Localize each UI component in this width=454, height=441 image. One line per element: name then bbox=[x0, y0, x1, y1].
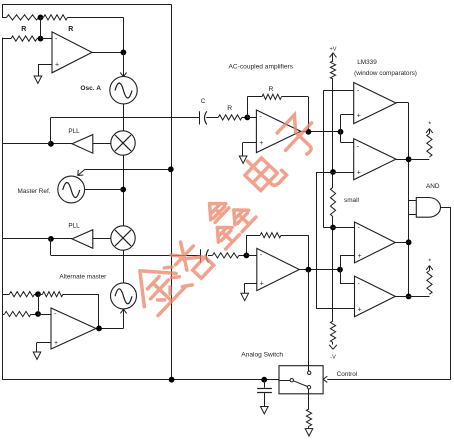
wire AC amp1 input line bbox=[51, 117, 199, 119]
wire signal to comp3 + bbox=[340, 255, 342, 269]
comparator U5C bbox=[355, 222, 396, 263]
resistor R13 (-V ladder) bbox=[330, 321, 335, 343]
wire left drop to R1 bbox=[2, 5, 4, 18]
svg-text:-: - bbox=[358, 225, 361, 232]
wire PLL2 node down to AC amp2 input line bbox=[50, 239, 52, 256]
wire U1 + to ground bbox=[38, 64, 52, 66]
resistor R16 (switch load) bbox=[306, 409, 311, 426]
wire PLL1 node up to AC amp1 input line bbox=[50, 117, 52, 143]
wire into U1 - bbox=[41, 38, 53, 40]
node comp3 output bbox=[406, 239, 412, 245]
wire comp1 - down to node B bbox=[323, 90, 353, 92]
wire PLL1 node to left rail bbox=[2, 143, 51, 145]
wire node A to comp2 + bbox=[316, 172, 353, 174]
wire PLL2 output bbox=[51, 238, 72, 240]
resistor R6 (U2 input) bbox=[2, 314, 5, 316]
wire master ref sync from right rail bbox=[85, 169, 171, 171]
wire Osc A to mixer X1 bbox=[123, 104, 125, 131]
ground U2 bbox=[33, 352, 41, 359]
resistor R11 (+V ladder) bbox=[330, 61, 335, 79]
node junction R1/R2 bbox=[38, 15, 44, 21]
resistor R2 (top feedback) bbox=[41, 17, 44, 19]
svg-text:R: R bbox=[68, 26, 73, 33]
wire output node to pull-up 1 bbox=[409, 159, 430, 161]
wire signal to comp1 + bbox=[340, 115, 342, 132]
node right rail / master ref bbox=[168, 166, 174, 172]
arrow to -V (switch load) bbox=[308, 426, 310, 428]
resistor R5 (U2 feedback b) bbox=[38, 294, 43, 296]
wire mixer X1 to PLL1 bbox=[93, 143, 111, 145]
wire U4 output bbox=[299, 269, 340, 271]
wire U2 + to ground bbox=[37, 342, 51, 344]
wire top feedback bus bbox=[2, 4, 172, 6]
resistor R1 (top left) bbox=[2, 17, 7, 19]
node U1 output bbox=[121, 50, 127, 56]
wire AC amp1 feedback up bbox=[247, 97, 249, 118]
resistor R14 (pull-up *) bbox=[427, 134, 432, 158]
node PLL2 output bbox=[48, 236, 54, 242]
node comparator outputs 1/2 bbox=[406, 156, 412, 162]
wire ladder lower bbox=[332, 217, 334, 321]
supply * arrow 2 bbox=[426, 266, 429, 270]
resistor R8 (AC amp1 feedback) bbox=[247, 96, 262, 98]
wire output node to pull-up 2 bbox=[409, 296, 430, 298]
svg-text:+: + bbox=[259, 140, 263, 147]
wire node B comp3 - bbox=[323, 227, 354, 229]
wire comp4 output bbox=[395, 296, 408, 298]
arrow into master ref bbox=[77, 170, 80, 176]
wire bus into switch pole bbox=[279, 380, 290, 382]
svg-text:Alternate master: Alternate master bbox=[59, 274, 107, 281]
svg-text:PLL: PLL bbox=[68, 223, 80, 230]
svg-text:LM339: LM339 bbox=[357, 59, 377, 66]
wire comp1 output bbox=[396, 102, 409, 104]
wire U4 + to ground bbox=[245, 283, 257, 285]
svg-text:-: - bbox=[357, 88, 360, 95]
wire comp2 output bbox=[396, 159, 409, 161]
wire ladder upper bbox=[332, 79, 334, 187]
svg-text:-: - bbox=[54, 311, 57, 318]
wire PLL2 node to left rail bbox=[2, 238, 51, 240]
svg-text:C: C bbox=[201, 98, 206, 105]
arrow into Osc A bbox=[120, 72, 123, 76]
wire node R1 to node R3 bbox=[40, 17, 42, 38]
wire mixer X1 to master ref node bbox=[123, 155, 125, 226]
source Osc. A (sine source) bbox=[110, 77, 137, 104]
amp PLL1 (left-pointing triangle) bbox=[72, 135, 93, 154]
wire into U3 - bbox=[247, 117, 256, 119]
node ref low (B) bbox=[330, 225, 336, 231]
node comp1/comp2 signal bbox=[338, 129, 344, 135]
svg-text:Master Ref.: Master Ref. bbox=[18, 188, 51, 195]
resistor R10 (AC amp2 feedback) bbox=[246, 235, 260, 237]
svg-text:+: + bbox=[358, 306, 362, 313]
ground U1 bbox=[34, 76, 42, 83]
node AC amp2 input bbox=[244, 253, 250, 259]
wire PLL1 output bbox=[51, 143, 72, 145]
svg-text:-: - bbox=[358, 281, 361, 288]
wire op-amp U2 output to alternate master bbox=[99, 328, 124, 330]
wire into U4 - bbox=[246, 255, 256, 257]
op-amp U4 (AC amp 2) bbox=[257, 248, 300, 290]
wire U1 output bbox=[92, 52, 123, 54]
node bus / right rail bbox=[169, 377, 175, 383]
wire R2 to op-amp U1 output bbox=[123, 17, 125, 52]
node comp4 output bbox=[406, 294, 412, 300]
node U3 output bbox=[306, 129, 312, 135]
wire U3 output bbox=[301, 131, 341, 133]
node U2 output bbox=[96, 326, 102, 332]
wire feedback down to output 2 bbox=[308, 235, 310, 269]
wire comp3 output bbox=[395, 242, 408, 244]
svg-text:+: + bbox=[357, 112, 361, 119]
wire signal to comp4 - bbox=[340, 270, 342, 284]
node PLL1 output bbox=[48, 141, 54, 147]
op-amp U1 (oscillator) bbox=[52, 32, 92, 73]
wire R3 lead + left rail bbox=[2, 38, 4, 380]
resistor R12 (small) bbox=[330, 187, 335, 216]
svg-text:+V: +V bbox=[330, 47, 337, 53]
svg-text:AC-coupled amplifiers: AC-coupled amplifiers bbox=[229, 64, 294, 71]
svg-text:*: * bbox=[428, 122, 431, 129]
wire U4 output down to analog switch bbox=[308, 270, 310, 372]
node U2 inverting input bbox=[35, 311, 41, 317]
svg-text:Analog Switch: Analog Switch bbox=[241, 351, 283, 358]
capacitor C3 (bus) bbox=[264, 380, 266, 388]
ground U3 bbox=[239, 156, 247, 163]
wire master ref to tap node bbox=[85, 189, 124, 191]
comparator U5D bbox=[355, 276, 396, 317]
watermark (decorative) bbox=[124, 110, 325, 317]
wire signal to comp2 - bbox=[340, 132, 342, 143]
svg-text:-: - bbox=[55, 36, 58, 43]
comparator U5B bbox=[354, 139, 396, 180]
wire into U2 - bbox=[38, 314, 51, 316]
wire AND input upper bbox=[409, 200, 417, 202]
op-amp U2 (alternate master driver) bbox=[51, 308, 96, 349]
wire mixer X2 to alternate master bbox=[123, 250, 125, 283]
node ref high (A) bbox=[330, 169, 336, 175]
svg-text:-: - bbox=[260, 252, 263, 259]
svg-text:R: R bbox=[227, 105, 232, 112]
amp PLL2 (left-pointing triangle) bbox=[72, 230, 93, 249]
wire bottom bus bbox=[2, 379, 279, 381]
svg-text:R: R bbox=[269, 86, 274, 93]
mixer X1 (circle-X) bbox=[111, 131, 135, 155]
wire node A down to comp4 + bbox=[316, 172, 318, 309]
node U4 output bbox=[306, 267, 312, 273]
source Alternate master (sine source) bbox=[111, 283, 137, 309]
gate AND (U6) bbox=[416, 198, 440, 218]
wire AC amp2 input line bbox=[51, 255, 200, 257]
svg-text:(window comparators): (window comparators) bbox=[354, 70, 417, 77]
svg-text:Control: Control bbox=[337, 371, 358, 378]
wire U2 output bbox=[96, 328, 99, 330]
wire C1 to R7 bbox=[206, 117, 218, 119]
wire U3 + to ground bbox=[243, 142, 256, 144]
supply -V arrow bbox=[332, 343, 334, 345]
wire feedback down to U2 output bbox=[98, 294, 100, 328]
node op-amp U1 inverting input bbox=[38, 36, 44, 42]
resistor R3 (inverting input) bbox=[2, 38, 11, 40]
wire U1 output to Osc A source bbox=[123, 52, 125, 76]
svg-text:R: R bbox=[21, 26, 26, 33]
capacitor C1 bbox=[199, 111, 201, 124]
node comp3/comp4 signal bbox=[337, 267, 343, 273]
node bus / capacitor bbox=[261, 377, 267, 383]
op-amp U3 (AC amp 1) bbox=[256, 110, 300, 153]
svg-text:AND: AND bbox=[426, 183, 440, 190]
wire switch bottom to R16 bbox=[308, 389, 310, 409]
svg-text:small: small bbox=[344, 197, 359, 204]
supply * arrow 1 bbox=[426, 129, 429, 133]
wire mixer X2 to PLL2 bbox=[93, 238, 111, 240]
node AC amp1 input bbox=[244, 115, 250, 121]
resistor R4 (U2 feedback a) bbox=[2, 294, 9, 296]
wire AND input lower bbox=[409, 214, 417, 216]
source Master Ref (sine source) bbox=[58, 176, 85, 203]
wire AND output to control bbox=[441, 207, 451, 209]
wire AC amp2 feedback up bbox=[246, 235, 248, 255]
resistor R9 (AC amp2 input) bbox=[213, 253, 239, 258]
svg-text:+: + bbox=[260, 281, 264, 288]
svg-text:PLL: PLL bbox=[68, 128, 80, 135]
ground C3 (open arrow) bbox=[261, 407, 269, 414]
switch lever bbox=[293, 381, 307, 387]
arrow into alternate master bbox=[120, 309, 123, 313]
svg-text:+: + bbox=[55, 62, 59, 69]
supply +V arrow bbox=[330, 53, 333, 58]
svg-text:*: * bbox=[428, 259, 431, 266]
arrow control into switch bbox=[323, 376, 327, 379]
comparator U5A (top) bbox=[354, 83, 396, 124]
switch pole contact bbox=[290, 379, 293, 382]
svg-text:-V: -V bbox=[330, 355, 336, 361]
wire C2 to R9 bbox=[208, 255, 213, 257]
svg-text:+: + bbox=[357, 169, 361, 176]
wire node to node (U2 fb) bbox=[38, 294, 40, 314]
switch throw contact top bbox=[308, 371, 311, 374]
svg-text:+: + bbox=[358, 253, 362, 260]
wire feedback down to output bbox=[308, 97, 310, 132]
svg-text:Osc. A: Osc. A bbox=[80, 85, 101, 92]
resistor R15 (pull-up *) bbox=[427, 271, 432, 295]
svg-text:-: - bbox=[259, 114, 262, 121]
resistor R7 (AC amp1 input) bbox=[218, 115, 242, 120]
node U2 feedback bbox=[35, 291, 41, 297]
svg-text:-: - bbox=[357, 144, 360, 151]
mixer X2 (circle-X) bbox=[111, 226, 135, 250]
switch throw contact bottom bbox=[307, 386, 310, 389]
capacitor C2 bbox=[200, 249, 202, 262]
node master ref tap bbox=[120, 187, 126, 193]
svg-text:+: + bbox=[54, 340, 58, 347]
ground U4 bbox=[241, 293, 249, 300]
switch box S1 bbox=[279, 366, 323, 394]
